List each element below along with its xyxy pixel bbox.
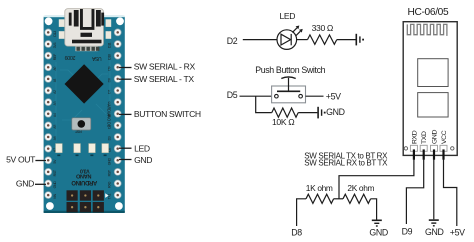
svg-text:10K Ω: 10K Ω — [272, 117, 295, 127]
module pin labels (rotated) — [411, 130, 448, 144]
resistor 330 zigzag — [308, 35, 337, 44]
svg-text:GND: GND — [134, 155, 152, 165]
ground (BT GND, down-facing) — [429, 220, 439, 226]
svg-text:330 Ω: 330 Ω — [312, 23, 334, 33]
svg-text:D9: D9 — [108, 66, 112, 70]
wire callout SW SERIAL RX — [119, 67, 132, 69]
svg-text:2K ohm: 2K ohm — [347, 183, 374, 193]
svg-text:D10: D10 — [108, 54, 112, 60]
svg-text:SW SERIAL - RX: SW SERIAL - RX — [134, 62, 196, 72]
pcb trace texture — [56, 60, 110, 142]
board PCB — [44, 16, 125, 213]
pin pad GND — [431, 145, 438, 151]
svg-text:BUTTON SWITCH: BUTTON SWITCH — [134, 109, 201, 119]
svg-text:D9: D9 — [402, 227, 413, 237]
svg-text:1K ohm: 1K ohm — [306, 183, 333, 193]
svg-text:D2: D2 — [227, 36, 238, 46]
wire 10K to ground — [298, 112, 317, 114]
chip upper — [418, 59, 448, 87]
TX triangle — [105, 193, 108, 198]
svg-text:V3.0: V3.0 — [80, 167, 90, 173]
mounting hole BL — [46, 202, 54, 210]
wire switch to +5V — [306, 95, 324, 97]
antenna meander — [407, 24, 447, 36]
wire callout LED — [119, 147, 132, 149]
switch cap arc — [281, 77, 295, 79]
switch stem — [288, 78, 290, 92]
LED diode triangle — [281, 34, 291, 45]
switch bridge bar — [277, 90, 300, 92]
svg-text:TXD: TXD — [421, 131, 428, 144]
svg-text:D11: D11 — [108, 43, 112, 49]
svg-text:LED: LED — [280, 11, 296, 21]
wire GND pin down — [433, 159, 435, 220]
mounting hole TL — [45, 17, 53, 25]
nano pin pads right column (D12-D2,GND,RST,RX0,TX1) — [108, 29, 122, 199]
chip lower — [418, 93, 448, 117]
svg-text:GND: GND — [425, 227, 444, 237]
wire resistor to ground — [337, 39, 356, 41]
LED arrow 2 — [296, 31, 301, 36]
switch body rect — [272, 86, 306, 103]
wire D2 to LED — [243, 39, 277, 41]
svg-text:D7: D7 — [108, 90, 112, 94]
LED arrow 1 — [292, 28, 297, 33]
wire callout BUTTON SWITCH — [119, 113, 132, 115]
svg-text:+5V: +5V — [326, 91, 341, 101]
ICSP header 2x3 — [67, 190, 104, 212]
wire callout SW SERIAL TX — [119, 78, 132, 80]
svg-text:HC-06/05: HC-06/05 — [408, 7, 449, 18]
wire 2K to ground — [371, 199, 377, 220]
wire TXD to D9 — [406, 159, 423, 225]
svg-text:ARDUINO: ARDUINO — [71, 179, 97, 185]
mounting hole TR — [116, 17, 124, 25]
junction to RXD wire — [339, 159, 414, 199]
module body — [403, 22, 457, 156]
svg-text:Push Button Switch: Push Button Switch — [255, 65, 325, 75]
svg-text:D8: D8 — [108, 78, 112, 82]
wire VCC to +5V — [444, 159, 457, 227]
svg-text:GND: GND — [108, 157, 112, 165]
resistor 1K zigzag — [306, 194, 334, 203]
switch contact right — [299, 94, 303, 98]
resistor 2K zigzag — [343, 194, 371, 203]
svg-text:VIN: VIN — [53, 193, 57, 199]
wire LED to resistor — [296, 39, 307, 41]
svg-text:USA: USA — [91, 55, 101, 61]
module pins (black stubs) — [413, 149, 445, 159]
svg-text:RXD: RXD — [411, 130, 418, 144]
svg-text:2009: 2009 — [65, 54, 76, 60]
svg-text:GND: GND — [53, 181, 57, 189]
wire D8 up to 1K — [297, 199, 306, 226]
pin pad VCC — [440, 145, 447, 151]
wire D5 node down — [256, 96, 272, 112]
svg-text:ARDUINO CC: ARDUINO CC — [107, 104, 112, 127]
LED row — [56, 144, 109, 153]
svg-text:RST: RST — [74, 130, 82, 134]
svg-text:D5: D5 — [227, 90, 238, 100]
pin pad TXD — [420, 145, 427, 151]
switch contact left — [275, 94, 279, 98]
pin pad RXD — [410, 145, 417, 151]
ground (10K, right-facing) — [318, 107, 325, 119]
svg-text:D13: D13 — [53, 31, 57, 37]
svg-text:GND: GND — [369, 227, 388, 237]
wire callout GND left — [35, 183, 46, 185]
ground (2K, down-facing) — [372, 220, 382, 226]
nano pin pads left column (D13,3V3,REF,A0-A7,5V,RST,GND,VIN) — [45, 29, 57, 199]
svg-text:TX1: TX1 — [108, 193, 112, 199]
svg-text:SW SERIAL RX to BT TX: SW SERIAL RX to BT TX — [304, 158, 388, 167]
ground (LED circuit, right-facing) — [356, 34, 364, 46]
resistor 10K zigzag — [272, 108, 298, 117]
svg-text:GND: GND — [326, 107, 345, 117]
svg-text:SW SERIAL - TX: SW SERIAL - TX — [134, 74, 195, 84]
svg-text:3V3: 3V3 — [53, 43, 57, 49]
corner hole left — [404, 147, 407, 150]
LED D2 circle — [277, 30, 297, 50]
LED cathode bar — [290, 34, 292, 45]
wire callout 5V OUT — [35, 160, 46, 162]
svg-text:GND: GND — [431, 130, 438, 144]
mounting hole BR — [115, 202, 123, 210]
svg-text:5V OUT: 5V OUT — [6, 155, 36, 165]
USB connector — [65, 9, 104, 52]
svg-text:GND: GND — [16, 179, 34, 189]
wire 1K to junction — [334, 198, 343, 200]
wire callout GND right — [119, 159, 132, 161]
RST button — [72, 118, 91, 130]
corner hole right — [451, 147, 454, 150]
LED arrowheads — [296, 26, 300, 30]
svg-text:VCC: VCC — [441, 130, 448, 144]
wire D5 to switch — [240, 95, 272, 97]
svg-text:LED: LED — [134, 144, 150, 154]
SMD parts next to USB — [59, 19, 111, 39]
svg-text:D8: D8 — [291, 227, 302, 237]
svg-text:+5V: +5V — [450, 227, 465, 237]
svg-text:D3: D3 — [108, 136, 112, 140]
svg-text:RX0: RX0 — [108, 182, 112, 188]
ARDUINO NANO V3.0 silk (rotated 180) — [71, 167, 97, 185]
ATmega chip (diamond) — [65, 64, 104, 103]
